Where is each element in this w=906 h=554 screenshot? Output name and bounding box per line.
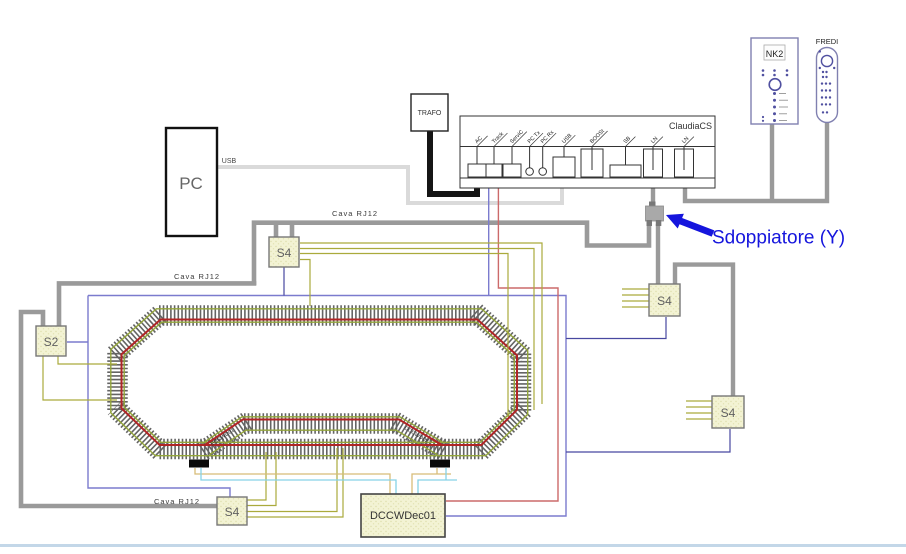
siding ties diag right xyxy=(395,422,445,452)
main oval red route line xyxy=(122,320,518,446)
S4c navy wire to bus xyxy=(566,429,730,452)
S4d olive pin 2 xyxy=(247,452,276,506)
port Servic xyxy=(503,164,521,177)
port SB xyxy=(610,165,641,177)
ties bottom xyxy=(158,439,483,460)
PC box xyxy=(166,128,217,236)
svg-text:S4: S4 xyxy=(277,246,292,260)
Y splitter sdoppiatore xyxy=(646,202,664,227)
port labels rotated xyxy=(473,127,694,147)
red track bus xyxy=(446,166,558,501)
blue bus left leg to S4d xyxy=(88,296,230,498)
siding ties diag left xyxy=(203,421,248,451)
TRAFO box xyxy=(411,94,448,131)
cava rj12 run to S2 xyxy=(59,283,256,326)
main oval inner rail xyxy=(124,322,514,442)
NK2 handheld xyxy=(751,38,798,124)
TRACKS xyxy=(111,309,528,468)
svg-text:FREDI: FREDI xyxy=(816,37,839,46)
bottom edge light blue line xyxy=(0,544,906,547)
usb cable PC to ClaudiaCS xyxy=(217,167,562,203)
svg-text:PC: PC xyxy=(179,174,203,193)
LN2 cable to handhelds xyxy=(685,122,827,201)
S2 blue stub xyxy=(67,341,88,343)
S2 module xyxy=(36,326,66,356)
svg-text:Cava RJ12: Cava RJ12 xyxy=(154,497,200,506)
ties corner BR xyxy=(480,409,523,452)
S4d olive pin 1 xyxy=(247,452,266,500)
svg-text:S2: S2 xyxy=(44,335,59,349)
trafo black cable xyxy=(430,131,477,194)
S4 module a (top) xyxy=(269,237,299,267)
main oval ties top xyxy=(159,305,479,326)
cava rj12 S4a stub right xyxy=(290,223,295,237)
main oval outer rail xyxy=(111,309,528,456)
S4a navy drop to bus xyxy=(283,267,285,296)
feeder left xyxy=(189,460,209,468)
cyan feeder wire right xyxy=(418,468,457,494)
svg-text:NK2: NK2 xyxy=(766,49,784,59)
feeder right xyxy=(430,460,450,468)
siding rails xyxy=(210,430,438,455)
svg-text:Sdoppiatore (Y): Sdoppiatore (Y) xyxy=(712,228,845,249)
S4 module b (right upper) xyxy=(649,284,680,316)
ties right xyxy=(511,354,532,412)
blue track-bus drop from ClaudiaCS xyxy=(488,166,490,296)
NK2 cable xyxy=(770,124,774,201)
port BOOST xyxy=(581,149,603,177)
splitter to S4b xyxy=(656,224,660,284)
svg-text:S4: S4 xyxy=(657,294,672,308)
svg-text:ClaudiaCS: ClaudiaCS xyxy=(669,121,712,131)
port Track xyxy=(486,164,502,177)
S4b to S4c xyxy=(675,265,733,396)
svg-text:S4: S4 xyxy=(721,406,736,420)
tan feeder wire left xyxy=(195,468,390,494)
ties corner BL xyxy=(115,408,161,452)
svg-text:S4: S4 xyxy=(225,505,240,519)
FREDI handheld xyxy=(816,37,839,123)
S4a olive pin 1 xyxy=(300,243,542,404)
S4a olive pin 2 xyxy=(300,249,534,411)
cava rj12 S4a stub left xyxy=(274,223,279,237)
tan feeder wire right xyxy=(412,468,451,494)
S4b olive pins xyxy=(622,289,649,307)
S4 module d (bottom) xyxy=(217,497,247,525)
blue track bus xyxy=(88,296,566,517)
ClaudiaCS command station xyxy=(460,116,715,188)
sdoppiatore arrow xyxy=(666,214,714,237)
port LN1 xyxy=(644,149,663,177)
S4b navy wire to bus xyxy=(566,317,666,339)
S4a olive pin 4 xyxy=(300,260,310,307)
S4a olive pin 3 xyxy=(300,254,508,418)
cava rj12 big loop S2 to S4d xyxy=(21,312,217,506)
S2 olive wire 2 xyxy=(43,356,117,400)
DCCWDec01 box xyxy=(361,494,445,537)
siding red route line xyxy=(204,420,443,446)
svg-text:USB: USB xyxy=(222,158,237,165)
svg-text:TRAFO: TRAFO xyxy=(418,110,442,117)
S4c olive pins xyxy=(686,401,712,419)
port PC Rx xyxy=(539,168,547,176)
cava rj12 top run S4a to splitter xyxy=(254,220,649,285)
port AC xyxy=(468,164,486,177)
S4 module c (right lower) xyxy=(712,396,744,428)
LN1 cable to splitter xyxy=(651,177,655,206)
ties corner TR xyxy=(475,312,524,357)
cyan feeder wire left xyxy=(201,468,396,494)
port PC Tx xyxy=(526,168,534,176)
S2 olive wire 1 xyxy=(58,356,117,364)
ties left xyxy=(107,353,128,411)
svg-text:DCCWDec01: DCCWDec01 xyxy=(370,510,436,522)
S4d olive pin 4 xyxy=(247,448,343,517)
S4d olive pin 3 xyxy=(247,448,337,512)
svg-text:Cava RJ12: Cava RJ12 xyxy=(332,209,378,218)
port LN2 xyxy=(675,149,694,177)
siding ties straight xyxy=(244,413,398,434)
svg-text:Cava RJ12: Cava RJ12 xyxy=(174,272,220,281)
port USB xyxy=(553,157,575,177)
ties corner TL xyxy=(115,313,162,355)
